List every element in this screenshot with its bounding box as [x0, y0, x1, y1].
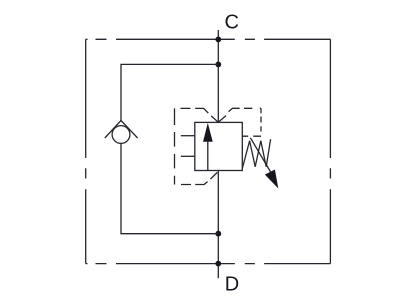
pilot line: left vertical dashed run	[174, 108, 176, 184]
relief valve RV1: flow arrow shaft	[207, 141, 209, 171]
pilot line: upper stub into valve left side	[181, 135, 195, 137]
pilot line: right dashed stub into spring side	[242, 135, 261, 137]
check valve CV1: seat (V)	[105, 121, 138, 139]
svg-text:C: C	[224, 12, 238, 34]
wire: port C vertical line into valve top port	[217, 30, 219, 122]
wire: valve bottom port vertical line to port D	[217, 171, 219, 279]
relief valve RV1: flow arrow head (filled, up)	[203, 123, 213, 142]
junction: check-valve branch tee (top)	[215, 62, 221, 68]
relief valve RV1: adjustment arrow head (filled)	[265, 170, 278, 189]
boundary envelope: top edge (long-short dashed)	[86, 38, 331, 40]
pilot line: right vertical dashed run	[260, 108, 262, 131]
wire: check-valve branch lower run	[121, 143, 218, 233]
relief valve RV1: body square	[195, 122, 243, 170]
junction: check-valve branch tee (bottom)	[215, 231, 221, 237]
wire: check-valve branch upper run	[121, 64, 218, 120]
junction: D line on envelope bottom edge	[215, 261, 221, 267]
node D label	[225, 274, 239, 296]
relief valve RV1: adjustment arrow shaft	[250, 138, 271, 174]
boundary envelope: bottom edge (long-short dashed)	[86, 263, 331, 265]
pilot line: top-right dashed run from valve top port	[218, 108, 261, 122]
pilot line: top-left dashed run from valve top port	[181, 108, 219, 122]
boundary envelope: left edge (long-short dashed)	[85, 39, 87, 263]
node C label	[224, 12, 238, 34]
pilot line: lower stub into valve left side	[181, 155, 195, 157]
junction: C line on envelope top edge	[215, 37, 221, 43]
relief valve RV1: spring	[242, 139, 270, 168]
pilot line: bottom-left dashed run to valve bottom port	[181, 172, 217, 184]
check valve CV1: ball	[112, 126, 130, 144]
boundary envelope: right edge (long-short dashed)	[329, 39, 331, 263]
svg-text:D: D	[225, 274, 239, 296]
